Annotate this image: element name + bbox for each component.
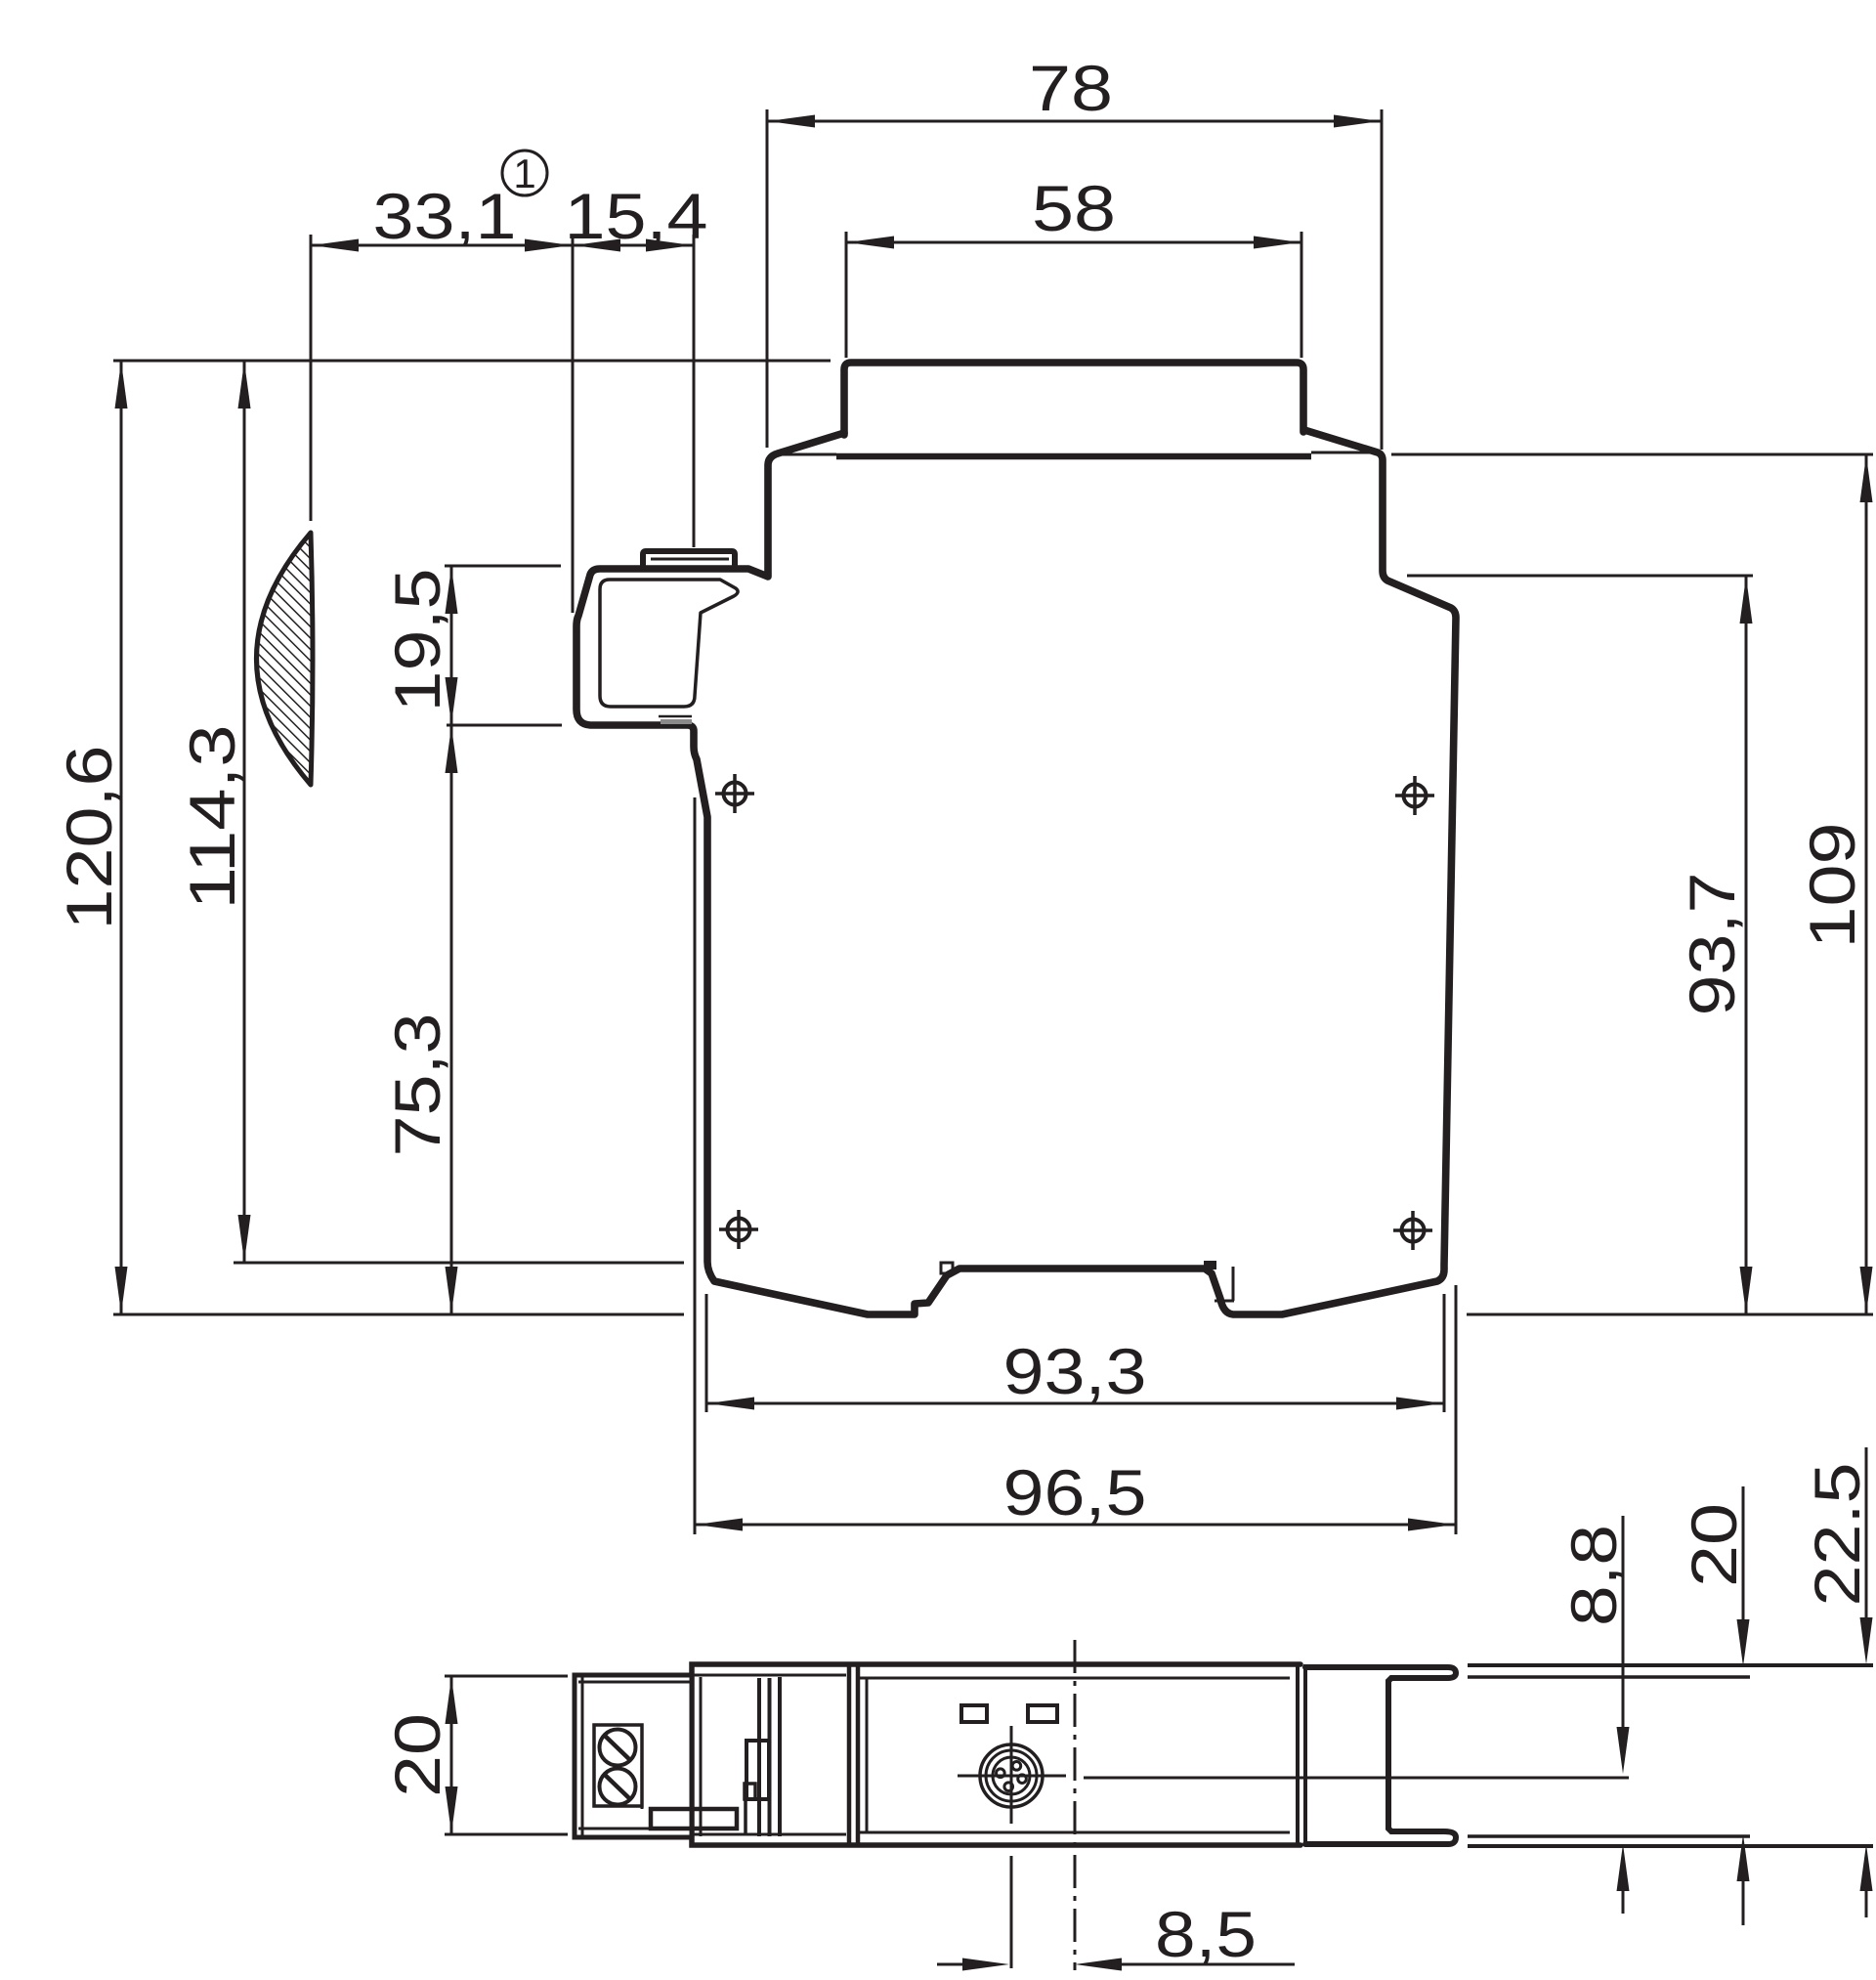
svg-text:120,6: 120,6 — [53, 746, 125, 930]
bv screw 2 — [600, 1769, 636, 1805]
dim 114,3 — [176, 361, 684, 1263]
dim 93,7 — [1407, 576, 1753, 1314]
bv led windows — [961, 1705, 1057, 1722]
bv partitions — [701, 1677, 780, 1836]
dim 78 — [767, 52, 1382, 450]
svg-text:15,4: 15,4 — [565, 180, 708, 252]
bv m8 crosshairs — [958, 1726, 1629, 1968]
bv terminal box — [594, 1725, 642, 1806]
dim 33,1 — [311, 180, 573, 521]
bv module body — [692, 1664, 1305, 1845]
svg-text:58: 58 — [1032, 172, 1116, 244]
svg-text:109: 109 — [1796, 823, 1868, 949]
footnote circle 1 — [502, 151, 547, 196]
main body outline — [576, 430, 1456, 1314]
svg-text:8,8: 8,8 — [1557, 1525, 1630, 1626]
bv connector block — [575, 1675, 692, 1837]
ref line top-left (cap top level) — [113, 360, 831, 363]
bv right refs — [1468, 1665, 1873, 1846]
dim 20 left — [381, 1676, 568, 1834]
mounting hole bottom-right — [1393, 1211, 1432, 1250]
connector cavity — [600, 580, 738, 707]
dim 22.5 — [1801, 1447, 1873, 1917]
svg-text:78: 78 — [1029, 52, 1113, 124]
dim 8,8 — [1557, 1516, 1630, 1914]
svg-text:22.5: 22.5 — [1801, 1463, 1873, 1607]
din notch ticks — [941, 1261, 1234, 1301]
dim 8,5 — [937, 1898, 1295, 1971]
top cap outline — [776, 363, 1376, 456]
svg-text:20: 20 — [1678, 1503, 1750, 1587]
dim 75,3 — [381, 725, 458, 1314]
bv partition box — [745, 1741, 769, 1834]
dim 15,4 — [565, 180, 708, 613]
mounting hole top-right — [1395, 776, 1434, 815]
svg-text:20: 20 — [381, 1713, 453, 1797]
svg-text:114,3: 114,3 — [176, 725, 248, 910]
dim 93,3 — [706, 1294, 1444, 1412]
dim 96,5 — [695, 797, 1456, 1534]
svg-text:75,3: 75,3 — [381, 1013, 453, 1157]
connector bottom detail — [659, 716, 692, 722]
bv rail clip — [1305, 1667, 1456, 1844]
ref line bottom-right — [1467, 1313, 1873, 1316]
dim 19,5 — [381, 566, 562, 725]
mounting hole top-left — [715, 774, 754, 813]
dim 109 — [1391, 454, 1873, 1314]
dim 58 — [846, 172, 1301, 358]
bv divider — [849, 1664, 858, 1845]
bv centerline — [1074, 1640, 1077, 1970]
bv screw 1 — [600, 1730, 636, 1766]
svg-text:93,3: 93,3 — [1003, 1335, 1147, 1407]
mounting hole bottom-left — [719, 1210, 758, 1249]
svg-text:33,1: 33,1 — [373, 180, 517, 252]
dim 120,6 — [53, 361, 684, 1314]
svg-text:8,5: 8,5 — [1155, 1898, 1257, 1970]
bv wire opening — [642, 1806, 737, 1829]
svg-text:96,5: 96,5 — [1003, 1456, 1147, 1528]
bv m8 connector — [980, 1744, 1043, 1807]
dim 20 right — [1678, 1486, 1750, 1925]
connector tab — [643, 551, 735, 568]
svg-text:19,5: 19,5 — [381, 569, 453, 712]
svg-text:93,7: 93,7 — [1676, 873, 1748, 1016]
svg-text:1: 1 — [513, 151, 535, 196]
lens crescent — [257, 533, 314, 785]
